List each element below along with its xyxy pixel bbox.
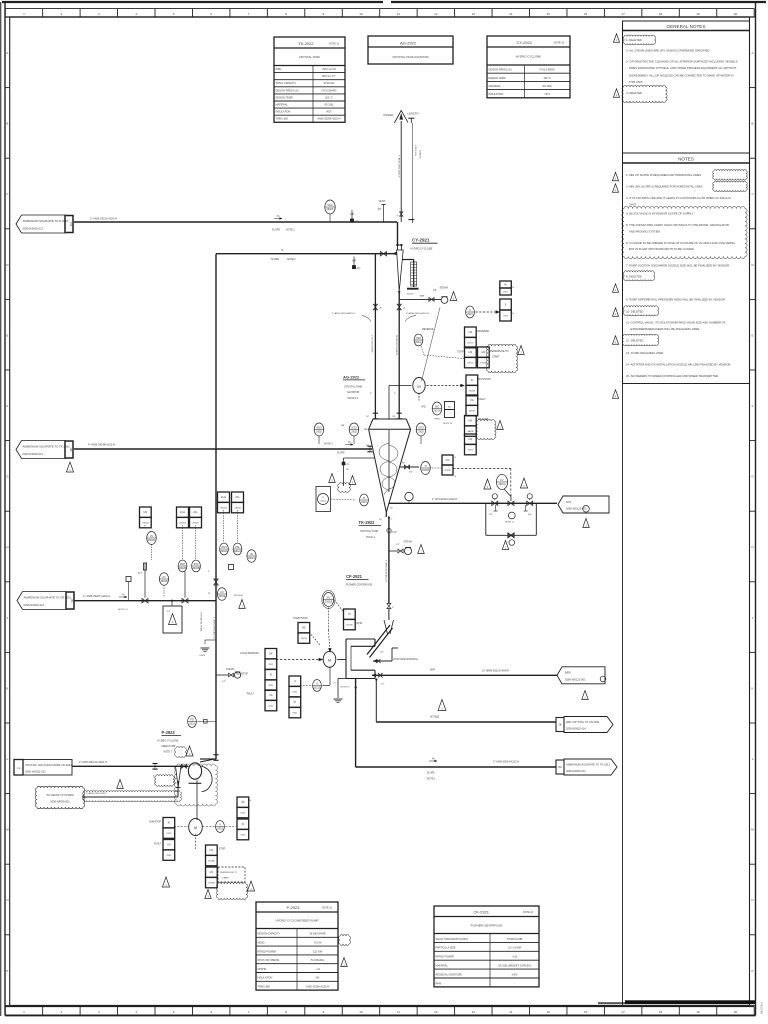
svg-text:2970 mm ID: 2970 mm ID bbox=[322, 68, 336, 71]
svg-text:2"-ANSI-29213-A222-H: 2"-ANSI-29213-A222-H bbox=[385, 560, 388, 582]
svg-text:IK: IK bbox=[504, 283, 507, 287]
svg-text:HS: HS bbox=[302, 626, 306, 630]
svg-text:START: START bbox=[492, 356, 500, 359]
svg-text:RPM: RPM bbox=[436, 982, 442, 985]
svg-text:10- DELETED: 10- DELETED bbox=[626, 310, 643, 314]
svg-text:P-2923: P-2923 bbox=[286, 905, 300, 910]
svg-text:Y HI 1D WF: Y HI 1D WF bbox=[760, 1002, 762, 1015]
svg-text:UV: UV bbox=[220, 590, 224, 594]
svg-text:2923: 2923 bbox=[240, 835, 246, 837]
svg-text:HS: HS bbox=[210, 848, 214, 852]
svg-text:2902: 2902 bbox=[351, 430, 357, 434]
svg-text:AMMONIUM SULPHATE TO CR-2921: AMMONIUM SULPHATE TO CR-2921 bbox=[24, 595, 72, 599]
svg-text:HYDRO CYCLONE: HYDRO CYCLONE bbox=[516, 54, 541, 58]
svg-text:C: C bbox=[6, 192, 8, 196]
svg-text:PUSHER CENTRIFUGE: PUSHER CENTRIFUGE bbox=[346, 584, 373, 587]
svg-text:1- MIN 2% SLOPE IS REQUIRED FO: 1- MIN 2% SLOPE IS REQUIRED FOR HORIZONT… bbox=[626, 173, 702, 177]
svg-text:16: 16 bbox=[584, 12, 588, 16]
svg-text:N: N bbox=[751, 898, 753, 902]
svg-text:3- CIP DENOTES THE CLEANING OF: 3- CIP DENOTES THE CLEANING OF ALL INTER… bbox=[626, 60, 739, 64]
svg-text:CF-2921: CF-2921 bbox=[473, 909, 489, 914]
svg-text:SSO: SSO bbox=[316, 426, 321, 430]
svg-text:UK: UK bbox=[241, 800, 245, 804]
svg-text:2- MIN 20% SLOPE IS REQUIRED F: 2- MIN 20% SLOPE IS REQUIRED FOR HORIZON… bbox=[626, 185, 703, 189]
svg-text:2921: 2921 bbox=[292, 692, 298, 694]
svg-text:ZLL: ZLL bbox=[193, 510, 198, 514]
svg-text:16C: 16C bbox=[558, 767, 563, 769]
svg-text:HOT: HOT bbox=[545, 93, 551, 96]
svg-text:ANSI-25299-A222-H: ANSI-25299-A222-H bbox=[306, 986, 329, 989]
svg-text:AND PACKING SYSTEM.: AND PACKING SYSTEM. bbox=[629, 229, 661, 233]
svg-text:2902D: 2902D bbox=[148, 538, 156, 542]
svg-text:DESIGN TEMP: DESIGN TEMP bbox=[489, 77, 507, 80]
svg-text:HS: HS bbox=[469, 419, 473, 423]
svg-text:2.22 KW: 2.22 KW bbox=[313, 950, 323, 953]
svg-text:2902B: 2902B bbox=[192, 523, 199, 525]
svg-text:DESIGN PRESS (G): DESIGN PRESS (G) bbox=[276, 89, 299, 92]
svg-text:2921C: 2921C bbox=[467, 343, 474, 345]
svg-text:2921E: 2921E bbox=[480, 363, 487, 365]
svg-text:-29026: -29026 bbox=[199, 655, 206, 657]
svg-text:N: N bbox=[6, 898, 8, 902]
svg-text:2902E: 2902E bbox=[218, 594, 226, 598]
svg-text:3/4": 3/4" bbox=[528, 514, 532, 516]
svg-text:D 9B DC: D 9B DC bbox=[419, 150, 421, 159]
svg-text:12: 12 bbox=[434, 12, 438, 16]
svg-text:2"-ANSI-29210-A222-H: 2"-ANSI-29210-A222-H bbox=[90, 216, 117, 220]
svg-text:17: 17 bbox=[621, 12, 625, 16]
svg-text:2921B: 2921B bbox=[346, 625, 353, 627]
svg-text:2921B: 2921B bbox=[444, 470, 451, 472]
svg-text:CRYSTAL TANK AGITATOR: CRYSTAL TANK AGITATOR bbox=[392, 55, 428, 59]
svg-text:CRYSTAL TANK: CRYSTAL TANK bbox=[344, 386, 363, 389]
svg-text:PIPES ASSOCIATED FITTINGS, AND: PIPES ASSOCIATED FITTINGS, AND OTHER PRO… bbox=[629, 66, 737, 70]
svg-text:NOTE 7: NOTE 7 bbox=[164, 751, 173, 754]
svg-text:1/2": 1/2" bbox=[381, 684, 385, 686]
svg-text:8- DELETED: 8- DELETED bbox=[626, 275, 642, 279]
svg-text:17: 17 bbox=[621, 1010, 625, 1014]
svg-text:BRS: BRS bbox=[565, 671, 571, 675]
svg-text:SS 316L: SS 316L bbox=[542, 85, 552, 88]
svg-text:NOTE 2: NOTE 2 bbox=[324, 443, 333, 446]
svg-text:ZLH: ZLH bbox=[180, 510, 185, 514]
svg-text:2"-ANSI-29021A-A222-H: 2"-ANSI-29021A-A222-H bbox=[79, 761, 107, 764]
svg-text:33.5/63 M³/HR: 33.5/63 M³/HR bbox=[309, 933, 325, 936]
svg-text:RPM: RPM bbox=[357, 622, 362, 625]
svg-text:HSC: HSC bbox=[416, 336, 422, 340]
svg-text:2921B: 2921B bbox=[325, 600, 333, 604]
svg-text:AMMONIUM SULPHATE TO TK-2921: AMMONIUM SULPHATE TO TK-2921 bbox=[23, 444, 71, 448]
svg-text:FV/3.5 BARG: FV/3.5 BARG bbox=[321, 89, 336, 92]
svg-text:K: K bbox=[752, 686, 754, 690]
svg-text:PARTICULA SIZE: PARTICULA SIZE bbox=[436, 947, 456, 950]
svg-text:2": 2" bbox=[333, 682, 335, 684]
svg-text:/5.0 (BARG): /5.0 (BARG) bbox=[311, 959, 325, 962]
svg-text:2"-ANSI-29207-A222-H: 2"-ANSI-29207-A222-H bbox=[83, 594, 110, 598]
svg-text:HS: HS bbox=[482, 350, 486, 354]
svg-text:3"-ANSI-29213-A222-H: 3"-ANSI-29213-A222-H bbox=[406, 312, 429, 315]
svg-text:A: A bbox=[752, 51, 754, 55]
svg-text:2902B: 2902B bbox=[179, 523, 186, 525]
svg-text:PUSHER CENTRIFUGE: PUSHER CENTRIFUGE bbox=[471, 923, 503, 927]
svg-text:2923: 2923 bbox=[189, 722, 195, 726]
svg-text:0290-N/0031-014: 0290-N/0031-014 bbox=[566, 726, 586, 730]
svg-text:15- SIC REFERS TO SPEED CONTRO: 15- SIC REFERS TO SPEED CONTROLLER AND S… bbox=[626, 374, 719, 378]
svg-text:3/4": 3/4" bbox=[378, 209, 382, 211]
svg-text:SLOPE: SLOPE bbox=[427, 773, 435, 775]
svg-text:2921: 2921 bbox=[268, 706, 274, 708]
svg-text:1- DELETED: 1- DELETED bbox=[626, 38, 642, 42]
svg-text:HS: HS bbox=[469, 350, 473, 354]
svg-text:HYDRO CYCLONE: HYDRO CYCLONE bbox=[158, 740, 179, 743]
svg-text:0290-N/0031-012: 0290-N/0031-012 bbox=[24, 603, 45, 607]
svg-text:11: 11 bbox=[397, 12, 400, 16]
svg-text:2902A: 2902A bbox=[220, 507, 227, 510]
svg-text:HOLD 1: HOLD 1 bbox=[366, 536, 376, 539]
svg-text:PG: PG bbox=[190, 718, 194, 722]
svg-text:LPS: LPS bbox=[566, 500, 571, 504]
svg-text:2921S: 2921S bbox=[301, 638, 308, 640]
svg-text:VENT: VENT bbox=[379, 200, 386, 203]
svg-text:C: C bbox=[751, 192, 753, 196]
svg-text:PERMISSIVE TO: PERMISSIVE TO bbox=[490, 350, 509, 353]
svg-text:10: 10 bbox=[359, 1010, 363, 1014]
svg-text:2"-ANSI-29021-A222: 2"-ANSI-29021-A222 bbox=[86, 792, 107, 795]
svg-text:3": 3" bbox=[370, 393, 372, 395]
svg-text:0290-N/FD9-001: 0290-N/FD9-001 bbox=[50, 800, 70, 804]
svg-text:SSO: SSO bbox=[418, 426, 423, 430]
svg-text:STEAM: STEAM bbox=[404, 541, 412, 544]
svg-text:SHUT-OFF PRESS: SHUT-OFF PRESS bbox=[258, 959, 280, 962]
svg-text:IK: IK bbox=[294, 700, 297, 704]
svg-text:CRYSTAL TANK: CRYSTAL TANK bbox=[360, 530, 379, 533]
svg-text:STEAM: STEAM bbox=[440, 286, 448, 289]
svg-text:SLOPE: SLOPE bbox=[337, 453, 345, 455]
svg-text:TRIM LINE: TRIM LINE bbox=[258, 986, 271, 989]
svg-text:2"x2": 2"x2" bbox=[392, 532, 398, 534]
svg-text:HS: HS bbox=[469, 330, 473, 334]
svg-text:ZSH: ZSH bbox=[180, 562, 185, 566]
svg-text:D: D bbox=[6, 263, 8, 267]
svg-text:HS: HS bbox=[144, 510, 148, 514]
svg-text:2902B: 2902B bbox=[179, 566, 187, 570]
svg-text:2923: 2923 bbox=[217, 827, 223, 831]
svg-text:19: 19 bbox=[696, 1010, 700, 1014]
svg-text:NOTE 14: NOTE 14 bbox=[348, 397, 359, 400]
svg-text:2921: 2921 bbox=[361, 500, 367, 504]
svg-text:SIC: SIC bbox=[435, 405, 439, 409]
svg-text:E: E bbox=[752, 333, 754, 337]
svg-text:2": 2" bbox=[397, 216, 399, 218]
svg-text:TRIM LINE: TRIM LINE bbox=[276, 118, 289, 121]
svg-text:NOTE 13: NOTE 13 bbox=[523, 911, 534, 914]
svg-text:XA: XA bbox=[167, 843, 171, 847]
svg-text:200 °C: 200 °C bbox=[325, 96, 333, 99]
svg-text:NOTE 2: NOTE 2 bbox=[286, 229, 295, 232]
svg-text:FAULT: FAULT bbox=[247, 693, 255, 696]
svg-text:9- PUMP DIFFERENTIAL PRESSURE: 9- PUMP DIFFERENTIAL PRESSURE HEAD WILL … bbox=[626, 298, 726, 302]
svg-text:TK-2922: TK-2922 bbox=[359, 520, 376, 525]
svg-text:LENGTH: LENGTH bbox=[408, 112, 419, 116]
svg-text:14: 14 bbox=[509, 12, 513, 16]
svg-text:0290-N/0031-011: 0290-N/0031-011 bbox=[23, 452, 44, 456]
svg-text:15: 15 bbox=[547, 1010, 551, 1014]
svg-text:CIP: CIP bbox=[346, 464, 350, 466]
svg-text:SHUT.: SHUT. bbox=[629, 202, 637, 206]
svg-text:6- UV-2922E TO BE OPENED IN CA: 6- UV-2922E TO BE OPENED IN CASE OF CLOS… bbox=[626, 241, 736, 245]
svg-text:2921A: 2921A bbox=[433, 409, 441, 413]
svg-text:F: F bbox=[752, 404, 754, 408]
svg-text:2": 2" bbox=[404, 308, 406, 310]
svg-text:RESIDUAL MOISTURE: RESIDUAL MOISTURE bbox=[436, 973, 463, 976]
svg-text:2902B: 2902B bbox=[192, 566, 200, 570]
svg-text:TOTAL CAPACITY: TOTAL CAPACITY bbox=[276, 82, 297, 85]
svg-text:2902A: 2902A bbox=[234, 549, 242, 553]
svg-text:2- ALL STEAM LINES ARE LPS UNL: 2- ALL STEAM LINES ARE LPS UNLESS OTHERW… bbox=[626, 49, 710, 53]
svg-text:XA: XA bbox=[269, 693, 273, 697]
svg-text:11- CONTROL VALVE, ITS ISOLATI: 11- CONTROL VALVE, ITS ISOLATION/BYPASS … bbox=[626, 321, 726, 325]
svg-text:20: 20 bbox=[734, 1010, 738, 1014]
svg-text:HYDRO CYCLONE FEED PUMP: HYDRO CYCLONE FEED PUMP bbox=[276, 919, 319, 923]
svg-text:3": 3" bbox=[380, 308, 382, 310]
svg-text:2": 2" bbox=[392, 607, 394, 609]
svg-text:H: H bbox=[6, 545, 8, 549]
svg-text:800 mm T-T: 800 mm T-T bbox=[322, 75, 336, 78]
svg-text:0290-N/0031-011: 0290-N/0031-011 bbox=[566, 769, 586, 773]
svg-text:TO DRAIN SYSTEM: TO DRAIN SYSTEM bbox=[46, 793, 74, 797]
svg-text:INSULATION: INSULATION bbox=[258, 977, 273, 980]
svg-text:2921: 2921 bbox=[292, 713, 298, 715]
svg-text:SIC: SIC bbox=[326, 596, 330, 600]
svg-text:B: B bbox=[752, 122, 754, 126]
svg-text:FV: FV bbox=[500, 478, 504, 482]
svg-text:2921D: 2921D bbox=[467, 363, 474, 365]
svg-text:2902D: 2902D bbox=[142, 523, 149, 525]
svg-text:SLOPE: SLOPE bbox=[272, 229, 280, 232]
svg-text:4- DELETED: 4- DELETED bbox=[626, 91, 642, 95]
svg-text:2923A: 2923A bbox=[208, 860, 215, 863]
svg-text:UK: UK bbox=[269, 652, 273, 656]
svg-text:2921: 2921 bbox=[468, 450, 474, 452]
svg-text:NOTE(6): NOTE(6) bbox=[234, 595, 243, 597]
svg-text:12"-BRM-29213-N/A/GP: 12"-BRM-29213-N/A/GP bbox=[482, 670, 509, 673]
svg-text:19: 19 bbox=[696, 12, 700, 16]
svg-text:2-5%: 2-5% bbox=[512, 973, 519, 976]
svg-text:2902B: 2902B bbox=[160, 579, 168, 583]
svg-text:INSULATION: INSULATION bbox=[276, 111, 291, 114]
svg-text:0.2-1.6 MM: 0.2-1.6 MM bbox=[508, 947, 521, 950]
svg-text:NOTE 13: NOTE 13 bbox=[322, 907, 333, 910]
svg-text:2902: 2902 bbox=[418, 430, 424, 434]
svg-text:10: 10 bbox=[359, 12, 363, 16]
svg-text:B: B bbox=[6, 122, 8, 126]
svg-text:T7928 KG/HR: T7928 KG/HR bbox=[507, 938, 523, 941]
svg-text:FAULT: FAULT bbox=[154, 843, 162, 846]
svg-text:A: A bbox=[6, 51, 8, 55]
svg-text:NOTES: NOTES bbox=[678, 157, 694, 162]
svg-text:2" SL 29213 A222H: 2" SL 29213 A222H bbox=[371, 335, 374, 353]
svg-text:2921: 2921 bbox=[467, 312, 473, 316]
svg-text:SOLID THROUGHPUT(DRY): SOLID THROUGHPUT(DRY) bbox=[436, 938, 469, 941]
svg-text:1/2": 1/2" bbox=[396, 544, 400, 546]
svg-text:BUT IN PLANT SHUTDOWN BOTH TO: BUT IN PLANT SHUTDOWN BOTH TO BE CLOSED. bbox=[629, 247, 695, 251]
svg-text:0290-N/0122-001: 0290-N/0122-001 bbox=[565, 678, 586, 682]
svg-text:2921: 2921 bbox=[268, 664, 274, 666]
svg-text:(FOR CAKE WASHING): (FOR CAKE WASHING) bbox=[393, 658, 418, 661]
svg-text:REVERSE: REVERSE bbox=[422, 328, 434, 331]
svg-text:SS 316L (BASKET: DUPLEX): SS 316L (BASKET: DUPLEX) bbox=[498, 965, 531, 968]
svg-text:10.26 SIG: 10.26 SIG bbox=[323, 82, 334, 85]
svg-text:13- TO BE FINALIZED LATER.: 13- TO BE FINALIZED LATER. bbox=[626, 351, 664, 355]
svg-text:17B: 17B bbox=[17, 768, 21, 770]
svg-text:DISASSEMBLY. ALL CIP NOZZLES C: DISASSEMBLY. ALL CIP NOZZLES CAN BE CONN… bbox=[629, 74, 733, 78]
svg-text:RPM: RPM bbox=[435, 419, 440, 421]
svg-text:TI: TI bbox=[424, 464, 427, 468]
svg-text:NOTE(5): NOTE(5) bbox=[430, 717, 439, 719]
svg-text:2B: 2B bbox=[559, 725, 562, 727]
svg-text:0290-N/0121-001: 0290-N/0121-001 bbox=[566, 507, 587, 511]
svg-text:D: D bbox=[751, 263, 753, 267]
svg-text:SIC: SIC bbox=[448, 407, 452, 409]
svg-text:CRYSTAL SOLUTION FROM CR-2921: CRYSTAL SOLUTION FROM CR-2921 bbox=[25, 763, 72, 767]
svg-text:SS 316L: SS 316L bbox=[324, 104, 334, 107]
svg-text:FAULT: FAULT bbox=[479, 398, 487, 401]
svg-text:11: 11 bbox=[397, 1010, 400, 1014]
svg-text:DESIGN TEMP: DESIGN TEMP bbox=[276, 96, 294, 99]
svg-text:2923B: 2923B bbox=[208, 883, 215, 885]
svg-text:RUN/STOP: RUN/STOP bbox=[236, 673, 249, 676]
svg-text:ZLH: ZLH bbox=[221, 495, 226, 499]
svg-text:SLOPE NO POCKETS: SLOPE NO POCKETS bbox=[395, 335, 397, 356]
svg-text:EXPANDERS/REDUCERS WILL BE FIN: EXPANDERS/REDUCERS WILL BE FINALIZED LAT… bbox=[631, 327, 701, 331]
svg-text:MATERIAL: MATERIAL bbox=[276, 104, 289, 107]
svg-text:SLOPE: SLOPE bbox=[271, 258, 279, 261]
svg-text:2923: 2923 bbox=[166, 855, 172, 857]
svg-text:XI: XI bbox=[168, 821, 171, 825]
svg-text:20: 20 bbox=[734, 12, 738, 16]
svg-text:M: M bbox=[194, 826, 197, 830]
svg-text:FV/3.5 BARG: FV/3.5 BARG bbox=[540, 69, 555, 72]
svg-text:DESIGN CAPACITY: DESIGN CAPACITY bbox=[258, 933, 281, 936]
svg-text:2921A: 2921A bbox=[320, 500, 326, 503]
svg-text:UV: UV bbox=[250, 552, 254, 556]
svg-text:PURGE: PURGE bbox=[384, 113, 394, 117]
svg-text:P: P bbox=[752, 969, 754, 973]
svg-text:WAF: WAF bbox=[420, 295, 425, 298]
svg-text:ANSI-25299-A222-H: ANSI-25299-A222-H bbox=[318, 118, 341, 121]
svg-text:PERMISSIVE TO: PERMISSIVE TO bbox=[220, 872, 237, 874]
svg-text:AG-2922: AG-2922 bbox=[343, 375, 360, 380]
svg-text:1/2": 1/2" bbox=[433, 290, 437, 292]
svg-text:LOCAL/REMOTE: LOCAL/REMOTE bbox=[240, 652, 259, 655]
svg-text:ZSH: ZSH bbox=[221, 545, 226, 549]
svg-text:2": 2" bbox=[208, 571, 210, 573]
svg-text:REVERSE: REVERSE bbox=[478, 330, 490, 333]
svg-text:18: 18 bbox=[659, 12, 663, 16]
svg-text:CF-2921: CF-2921 bbox=[346, 574, 363, 579]
svg-text:SSO: SSO bbox=[327, 203, 332, 207]
svg-text:CY-2921: CY-2921 bbox=[517, 40, 533, 45]
svg-text:P-2923: P-2923 bbox=[162, 730, 176, 735]
svg-text:ZSL: ZSL bbox=[235, 545, 240, 549]
svg-text:2"-ANSI-29214-A222-H: 2"-ANSI-29214-A222-H bbox=[493, 761, 519, 764]
svg-text:P: P bbox=[6, 969, 8, 973]
svg-text:~ M: ~ M bbox=[315, 968, 319, 971]
svg-text:CY-2921: CY-2921 bbox=[412, 238, 430, 243]
svg-text:73.6 M: 73.6 M bbox=[314, 942, 322, 945]
svg-text:NOTE 12: NOTE 12 bbox=[341, 687, 351, 689]
svg-text:NOTE 2: NOTE 2 bbox=[287, 258, 296, 261]
svg-text:14: 14 bbox=[509, 1010, 513, 1014]
svg-text:0290-N/0031-012: 0290-N/0031-012 bbox=[23, 227, 44, 231]
svg-text:STEAM: STEAM bbox=[226, 668, 234, 671]
svg-text:INSULATION: INSULATION bbox=[489, 93, 504, 96]
svg-text:2": 2" bbox=[391, 519, 393, 521]
svg-text:HEAD: HEAD bbox=[258, 942, 265, 945]
svg-text:2921L: 2921L bbox=[415, 340, 423, 344]
svg-text:AG-2922: AG-2922 bbox=[400, 41, 417, 46]
svg-text:XI: XI bbox=[242, 822, 245, 826]
svg-text:HYDRO CYCLONE: HYDRO CYCLONE bbox=[411, 247, 433, 250]
svg-text:MATERIAL: MATERIAL bbox=[489, 85, 502, 88]
svg-text:CRYSTAL TANK: CRYSTAL TANK bbox=[299, 55, 320, 59]
svg-text:SSO: SSO bbox=[351, 426, 356, 430]
svg-text:3/4": 3/4" bbox=[489, 514, 493, 516]
svg-text:M: M bbox=[417, 384, 420, 389]
svg-text:2902: 2902 bbox=[316, 430, 322, 434]
svg-text:AGITATOR: AGITATOR bbox=[347, 391, 360, 394]
svg-text:13: 13 bbox=[472, 12, 476, 16]
svg-text:NOTE 15: NOTE 15 bbox=[443, 423, 453, 425]
svg-text:2921B: 2921B bbox=[422, 468, 430, 472]
svg-text:XXXXX: XXXXX bbox=[407, 294, 415, 296]
svg-text:M: M bbox=[328, 658, 331, 663]
svg-text:1/2": 1/2" bbox=[346, 469, 350, 471]
svg-text:5- THE CONVEYORS CARRY SOLID C: 5- THE CONVEYORS CARRY SOLID CRYSTALS TO… bbox=[626, 223, 729, 227]
svg-text:12: 12 bbox=[434, 1010, 438, 1014]
svg-text:HS: HS bbox=[210, 870, 214, 874]
svg-text:ZSL: ZSL bbox=[194, 562, 199, 566]
svg-text:2921: 2921 bbox=[268, 685, 274, 687]
svg-text:0290-N/0031-012: 0290-N/0031-012 bbox=[25, 770, 46, 774]
svg-text:GENERAL NOTES: GENERAL NOTES bbox=[667, 24, 706, 29]
svg-text:2900T: 2900T bbox=[326, 207, 334, 211]
svg-text:3- IT IS A BYPASS LINE AND IT: 3- IT IS A BYPASS LINE AND IT LEADS TO C… bbox=[626, 196, 731, 200]
svg-text:2921E: 2921E bbox=[469, 391, 476, 393]
svg-text:STOP: STOP bbox=[457, 351, 464, 354]
svg-text:2921F: 2921F bbox=[469, 411, 476, 413]
svg-text:NOTE 2,3: NOTE 2,3 bbox=[118, 609, 129, 611]
svg-text:START/STOP: START/STOP bbox=[293, 617, 308, 620]
svg-text:UV: UV bbox=[162, 575, 166, 579]
svg-text:2902A: 2902A bbox=[248, 556, 256, 560]
svg-text:XI: XI bbox=[270, 673, 273, 677]
svg-text:1/2": 1/2" bbox=[355, 222, 359, 224]
svg-text:VFD: VFD bbox=[421, 406, 426, 409]
svg-text:100 °C: 100 °C bbox=[543, 77, 551, 80]
svg-text:18: 18 bbox=[659, 1010, 663, 1014]
svg-text:16: 16 bbox=[584, 1010, 588, 1014]
svg-text:~100: ~100 bbox=[512, 956, 518, 959]
svg-text:ZLL: ZLL bbox=[235, 495, 240, 499]
svg-text:2923: 2923 bbox=[166, 833, 172, 835]
svg-text:1/2": 1/2" bbox=[380, 652, 384, 654]
svg-text:RATED POWER: RATED POWER bbox=[436, 956, 455, 959]
svg-text:3"-ANSI-29233-A222-H: 3"-ANSI-29233-A222-H bbox=[332, 312, 355, 315]
svg-text:ACV: ACV bbox=[138, 572, 143, 575]
svg-text:15A: 15A bbox=[70, 598, 73, 603]
svg-text:TI: TI bbox=[363, 496, 366, 500]
